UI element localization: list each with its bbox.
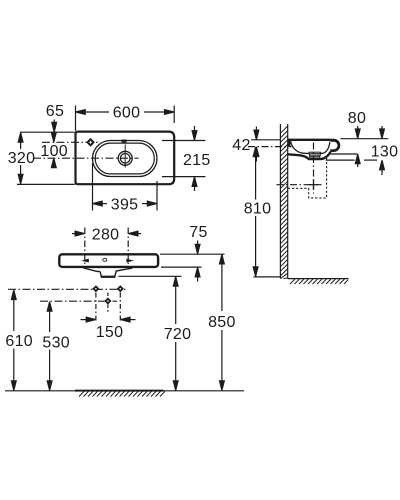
dim 65 arrow [53, 120, 55, 131]
hole centerline right (280) [127, 228, 129, 266]
svg-text:130: 130 [371, 144, 399, 161]
wall right line [287, 124, 289, 279]
dim 600 extension line left [75, 106, 77, 131]
bottom edge extension line (left of basin) [17, 183, 75, 185]
dim 600 extension line right [173, 106, 175, 124]
dim 215 extension bottom [162, 176, 206, 178]
rim-left extension line (42) [251, 139, 280, 141]
svg-text:80: 80 [348, 110, 366, 127]
apron bottom extension line (80) [331, 153, 358, 155]
face top extension line [160, 253, 225, 255]
dim 395 line [102, 203, 108, 205]
overflow mark (plan) [122, 140, 127, 143]
dim 80 arrows [357, 126, 359, 138]
dim 850 line [221, 256, 223, 312]
dim 215 arrows [194, 126, 196, 131]
dim 215 extension top [162, 140, 206, 142]
svg-text:610: 610 [5, 333, 33, 350]
bowl inner oval [95, 143, 154, 174]
bowl interior left [291, 141, 309, 153]
floor line (front view) [5, 390, 244, 392]
rim top extension line (80/130) [341, 138, 389, 140]
fixing hole left drop line [95, 293, 97, 322]
svg-text:810: 810 [244, 200, 272, 217]
svg-text:600: 600 [113, 105, 141, 122]
svg-text:720: 720 [164, 326, 192, 343]
tap axis centerline (side) [248, 146, 292, 148]
drain axis centerline (vertical) [313, 143, 315, 194]
svg-text:42: 42 [232, 137, 250, 154]
svg-text:850: 850 [208, 314, 236, 331]
floor thick strip [75, 390, 164, 392]
dim 130 arrows [381, 126, 383, 138]
face bottom extension line [161, 266, 202, 268]
svg-text:280: 280 [92, 226, 120, 243]
dim 530 line [49, 303, 51, 332]
dim 320 line [20, 133, 22, 149]
svg-text:75: 75 [189, 224, 207, 241]
hole centerline left (280) [84, 228, 86, 266]
fixing hole right drop line [119, 293, 121, 322]
front face outline [59, 254, 158, 267]
dim 280 arrows [72, 233, 76, 235]
underside left slant [84, 268, 101, 272]
floor line (side view) [288, 278, 349, 280]
outlet axis centerline (horizontal) [277, 184, 322, 186]
svg-text:530: 530 [42, 334, 70, 351]
inner arrow right [126, 259, 134, 263]
dim 610 line [13, 292, 15, 332]
dim 720 line [175, 278, 177, 324]
outlet axis cross [309, 184, 318, 186]
top edge extension line (left of basin) [20, 131, 75, 133]
rim top thick line [288, 139, 330, 141]
dim 600 line [85, 111, 110, 113]
underside profile [288, 152, 331, 159]
trap centerline (530 level) [40, 300, 117, 302]
dim 150 arrows [81, 319, 87, 321]
drain vertical center tick [124, 145, 126, 168]
drain (plan) outer circle [118, 151, 132, 165]
overflow mark (front) [103, 258, 107, 261]
inner arrow left [81, 259, 89, 263]
fixing holes centerline (610 level) [8, 288, 126, 290]
concealed trap outline (hidden line) [288, 157, 327, 198]
stub bottom extension line [119, 275, 182, 277]
bowl interior right [321, 142, 330, 154]
dim 42 arrows [255, 127, 257, 140]
dim 100 arrows [51, 133, 56, 143]
drain inner circle [120, 154, 130, 164]
dim 810 line [255, 149, 257, 200]
svg-text:65: 65 [46, 103, 64, 120]
centerline through tap hole [42, 141, 99, 143]
floor hatching (side view) [290, 279, 348, 284]
wall left line [279, 124, 281, 279]
rear splash drip at wall [288, 139, 291, 147]
centerline through drain [33, 157, 139, 159]
svg-text:320: 320 [8, 150, 36, 167]
drain stub [100, 268, 132, 277]
svg-text:150: 150 [96, 324, 124, 341]
tap hole symbol [86, 138, 95, 147]
front rim hook [329, 139, 341, 152]
bowl outer oval [93, 141, 158, 177]
svg-text:215: 215 [183, 152, 211, 169]
dim 75 arrows [197, 241, 199, 253]
basin outline (plan) [76, 132, 175, 185]
drain stub bottom thick [101, 276, 116, 278]
middle hole vertical ticks [107, 293, 109, 298]
svg-text:395: 395 [111, 196, 139, 213]
svg-text:100: 100 [40, 143, 68, 160]
lowest point extension line (130) [326, 159, 355, 161]
wall hatching [280, 126, 287, 279]
dim 395 extension lines [92, 163, 94, 211]
drain ribs [309, 152, 321, 159]
floor hatching (front view) [79, 391, 165, 396]
trap hole middle [104, 297, 111, 304]
fixing hole left [92, 285, 99, 292]
fixing hole right [117, 285, 124, 292]
floor level tick (left of wall) [254, 276, 280, 278]
